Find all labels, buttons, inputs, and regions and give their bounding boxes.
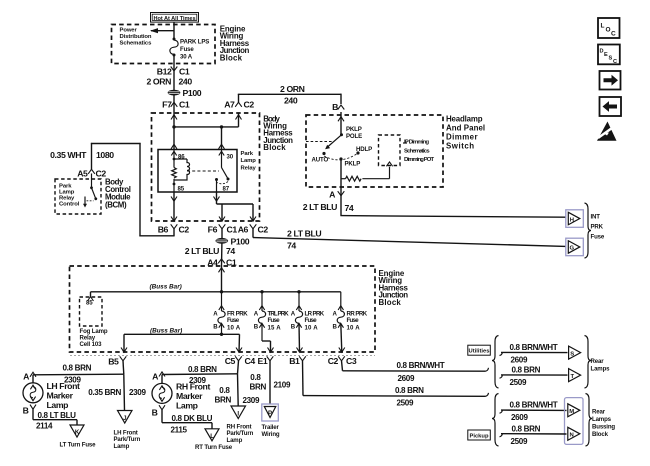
svg-text:B6: B6 bbox=[158, 224, 169, 234]
svg-text:2609: 2609 bbox=[511, 355, 528, 364]
connector E1 (fork up) bbox=[258, 356, 274, 366]
faint scan dotted line under block bbox=[70, 355, 375, 357]
svg-text:10 A: 10 A bbox=[227, 325, 241, 332]
fuse FR PRK 10A bbox=[213, 292, 248, 335]
svg-text:2609: 2609 bbox=[511, 413, 528, 422]
label: Rear Lamps Bussing Block bbox=[592, 409, 615, 439]
svg-text:240: 240 bbox=[284, 96, 298, 106]
fuse symbol L: RT Turn Fuse bbox=[195, 429, 233, 451]
svg-text:Schematics: Schematics bbox=[404, 148, 430, 154]
svg-text:K: K bbox=[75, 429, 80, 436]
svg-text:Dimming POT: Dimming POT bbox=[404, 157, 435, 163]
svg-text:Fuse: Fuse bbox=[305, 317, 318, 324]
headlamp and panel dimmer switch dashed box bbox=[306, 115, 443, 187]
BCM name bbox=[105, 178, 131, 210]
buss bar (upper) bbox=[91, 291, 341, 293]
svg-text:0.8 BRN/WHT: 0.8 BRN/WHT bbox=[397, 361, 445, 370]
relay switch 30-87 bbox=[215, 168, 230, 193]
svg-text:HDLP: HDLP bbox=[356, 146, 372, 153]
wire: F6 down to A4 bbox=[221, 238, 224, 266]
svg-text:B5: B5 bbox=[108, 356, 119, 366]
svg-text:Fuse: Fuse bbox=[591, 234, 605, 241]
svg-text:C2: C2 bbox=[179, 224, 190, 234]
svg-text:Power: Power bbox=[120, 27, 138, 33]
svg-text:Bussing: Bussing bbox=[592, 424, 615, 431]
toolbar icon LOC bbox=[598, 18, 620, 38]
svg-text:87: 87 bbox=[223, 186, 230, 193]
svg-text:POLE: POLE bbox=[346, 133, 362, 140]
connector A7 C2 (fork down) bbox=[224, 99, 254, 109]
svg-text:C: C bbox=[611, 31, 616, 38]
fuse LR PRK 10A bbox=[291, 292, 325, 352]
connector C2 C3 (fork up) bbox=[328, 356, 357, 366]
svg-text:10 A: 10 A bbox=[305, 325, 319, 332]
fuse PARK LPS 30A bbox=[170, 38, 209, 61]
svg-text:2509: 2509 bbox=[511, 437, 528, 446]
wire: internal link F7 to A7 bbox=[174, 126, 239, 128]
contact HDLP bbox=[356, 146, 372, 155]
svg-text:PKLP: PKLP bbox=[346, 126, 362, 133]
contact PKLP bbox=[339, 157, 360, 167]
svg-text:C: C bbox=[613, 59, 617, 65]
exit arrows at body block bottom bbox=[171, 217, 177, 222]
svg-text:F7: F7 bbox=[162, 99, 172, 109]
connector B (LH marker, fork down) bbox=[23, 405, 36, 416]
exit arrows at engine block bottom bbox=[121, 348, 127, 353]
svg-text:2 LT BLU: 2 LT BLU bbox=[303, 202, 337, 212]
wire: arrow to power distribution schematics bbox=[150, 28, 174, 33]
wire label: 0.35 WHT 1080 bbox=[50, 150, 114, 160]
power label: Hot At All Times bbox=[151, 13, 199, 23]
svg-text:85: 85 bbox=[178, 186, 185, 193]
svg-text:C1: C1 bbox=[179, 99, 190, 109]
BCM label: park lamp relay control bbox=[59, 183, 80, 207]
fuse symbol K: LT Turn Fuse bbox=[60, 425, 97, 449]
fork into relay (pin30 wire) bbox=[219, 144, 225, 149]
svg-text:A6: A6 bbox=[238, 224, 249, 234]
connector B (RH marker, fork down) bbox=[152, 405, 165, 417]
engine block (top) name bbox=[220, 25, 250, 63]
contact AUTO bbox=[312, 152, 329, 164]
engine wiring harness junction block (lower) dashed box bbox=[70, 266, 376, 352]
svg-text:A: A bbox=[291, 311, 296, 318]
wire S: 0.8 BRN/WHT 2609 bbox=[500, 343, 568, 364]
svg-text:LH Front: LH Front bbox=[47, 381, 80, 391]
toolbar icon arrow right bbox=[600, 71, 621, 90]
dashed line to box edge bbox=[306, 141, 332, 143]
relay name bbox=[241, 151, 257, 171]
svg-text:A: A bbox=[254, 311, 259, 318]
wire: A4 into block to buss bar bbox=[221, 266, 223, 292]
buss bar (lower) bbox=[124, 328, 240, 352]
wire: B6 to BCM A5 bbox=[91, 143, 175, 237]
svg-text:H: H bbox=[570, 217, 574, 223]
svg-text:C2: C2 bbox=[244, 99, 255, 109]
label PKLP POLE bbox=[346, 126, 362, 140]
svg-text:Block: Block bbox=[592, 431, 609, 438]
wire label: 2 LT BLU 74 (lower) bbox=[185, 246, 236, 256]
node: A4 on buss bar bbox=[220, 290, 223, 293]
toolbar icon DESC bbox=[598, 45, 620, 66]
svg-text:G: G bbox=[570, 246, 575, 252]
inline connector P100 (lower) bbox=[216, 236, 250, 246]
wire: A6 to fuse G (2 LT BLU 74) bbox=[253, 228, 566, 250]
svg-text:Fuse: Fuse bbox=[347, 317, 360, 324]
label: Power Distribution Schematics bbox=[120, 27, 153, 46]
left brace pickup group bbox=[492, 394, 499, 447]
BCM driver switch bbox=[83, 174, 97, 208]
svg-text:Marker: Marker bbox=[176, 391, 203, 401]
label: Fog Lamp Relay Cell 103 bbox=[80, 328, 108, 348]
svg-text:L: L bbox=[601, 23, 605, 30]
svg-text:C3: C3 bbox=[346, 356, 357, 366]
svg-text:B: B bbox=[254, 324, 259, 331]
inline connector P100 bbox=[168, 88, 202, 98]
svg-text:30: 30 bbox=[227, 154, 234, 161]
wire T: 0.8 BRN 2509 bbox=[500, 366, 568, 388]
wire: PKLP leg down out of switch bbox=[340, 183, 342, 196]
svg-text:Block: Block bbox=[220, 53, 243, 62]
svg-text:Lamp: Lamp bbox=[114, 443, 130, 450]
wire label: 0.8 BRN 2309 (RH) bbox=[188, 365, 217, 385]
svg-text:0.8: 0.8 bbox=[250, 373, 261, 382]
svg-text:Pickup: Pickup bbox=[469, 434, 488, 440]
svg-text:PKLP: PKLP bbox=[345, 160, 361, 167]
svg-text:Fuse: Fuse bbox=[180, 46, 194, 53]
svg-text:10 A: 10 A bbox=[347, 325, 361, 332]
svg-text:B12: B12 bbox=[157, 67, 172, 77]
svg-text:RH Front: RH Front bbox=[176, 382, 210, 392]
toolbar icon ESD triangle bbox=[597, 122, 617, 141]
connector C5 C4 (fork up) bbox=[225, 356, 256, 366]
svg-text:(Buss Bar): (Buss Bar) bbox=[150, 283, 182, 290]
svg-text:0.8 BRN: 0.8 BRN bbox=[512, 424, 541, 433]
wire: C5 down 0.8 BRN 2309 to I bbox=[215, 374, 260, 406]
svg-text:L: L bbox=[210, 433, 214, 440]
svg-text:0.8 BRN/WHT: 0.8 BRN/WHT bbox=[510, 401, 558, 410]
wire label: 2 ORN 240 bbox=[146, 76, 192, 86]
node: junction to relay pin 30 bbox=[220, 125, 223, 128]
fuse symbol H (boxed, INT PRK) bbox=[566, 210, 584, 228]
svg-text:Lamps: Lamps bbox=[592, 416, 612, 423]
resistor to dimming pot bbox=[341, 162, 393, 181]
svg-text:A: A bbox=[213, 311, 218, 318]
svg-text:B: B bbox=[23, 406, 29, 416]
wire: A7 drop into body block bbox=[238, 113, 240, 127]
svg-text:B1: B1 bbox=[289, 356, 300, 366]
svg-text:0.8 BRN: 0.8 BRN bbox=[188, 365, 217, 374]
svg-text:Lamp: Lamp bbox=[176, 401, 198, 411]
svg-text:M: M bbox=[569, 409, 574, 415]
svg-text:Block: Block bbox=[379, 298, 402, 307]
connector A (LH marker) bbox=[23, 372, 36, 382]
svg-text:F6: F6 bbox=[208, 224, 218, 234]
svg-text:O: O bbox=[606, 27, 611, 34]
svg-text:T: T bbox=[570, 374, 574, 380]
svg-text:0.35 BRN: 0.35 BRN bbox=[88, 388, 121, 397]
wire: pin 85 to B6 exit bbox=[173, 192, 175, 221]
wire label: 2 ORN 240 (branch) bbox=[280, 84, 305, 106]
engine wiring harness junction block (top) dashed box bbox=[112, 25, 216, 64]
body block name bbox=[263, 114, 293, 152]
wire: C3 down and right 0.8 BRN/WHT 2609 bbox=[342, 361, 489, 383]
label: Rear Lamps bbox=[591, 358, 611, 373]
svg-text:C2: C2 bbox=[328, 356, 339, 366]
entry arrow A4 bbox=[219, 268, 225, 273]
svg-text:30 A: 30 A bbox=[180, 54, 193, 61]
wire: E1 down 0.8 BRN 2109 to P bbox=[250, 361, 291, 404]
svg-text:Headlamp: Headlamp bbox=[446, 115, 483, 124]
svg-text:Rear: Rear bbox=[592, 409, 606, 416]
wire: branch 2 ORN to headlamp switch bbox=[238, 94, 341, 104]
svg-text:A: A bbox=[333, 311, 338, 318]
svg-text:AUTO: AUTO bbox=[312, 157, 329, 164]
connector F6 C1 (fork up) bbox=[208, 224, 238, 238]
svg-text:1080: 1080 bbox=[96, 150, 114, 160]
svg-text:IP Dimming: IP Dimming bbox=[404, 140, 430, 146]
lamp symbol I: RH Front Park/Turn Lamp bbox=[227, 406, 254, 444]
svg-text:(BCM): (BCM) bbox=[105, 200, 127, 209]
svg-text:E1: E1 bbox=[258, 356, 268, 366]
connector B (fork down) at headlamp switch bbox=[332, 102, 344, 112]
svg-text:And Panel: And Panel bbox=[446, 124, 485, 133]
wire: junction down to relay pin 30 bbox=[221, 127, 223, 150]
wire: B5 down 0.35 BRN 2309 to J bbox=[88, 374, 146, 410]
svg-text:BRN: BRN bbox=[250, 383, 267, 392]
park lamp relay box bbox=[158, 150, 237, 193]
svg-text:B: B bbox=[152, 408, 158, 418]
svg-text:Switch: Switch bbox=[446, 142, 474, 151]
connector F7 C1 (fork down) bbox=[162, 99, 190, 109]
svg-text:LT Turn Fuse: LT Turn Fuse bbox=[60, 442, 97, 449]
svg-text:Lamp: Lamp bbox=[227, 437, 243, 444]
body control module dashed box bbox=[55, 179, 101, 214]
wire: F7 drop into body block bbox=[173, 113, 175, 150]
svg-text:Rear: Rear bbox=[591, 358, 605, 365]
svg-text:A5: A5 bbox=[77, 169, 88, 179]
svg-text:85: 85 bbox=[86, 300, 93, 307]
svg-text:240: 240 bbox=[179, 76, 193, 86]
svg-text:S: S bbox=[570, 351, 574, 357]
RH front marker lamp bbox=[152, 375, 210, 411]
svg-text:2 LT BLU: 2 LT BLU bbox=[287, 228, 321, 238]
fork into relay (pin86 wire) bbox=[171, 144, 177, 149]
svg-text:74: 74 bbox=[287, 241, 296, 251]
relay pin 30 bbox=[219, 150, 234, 168]
relay pin 86 bbox=[171, 150, 185, 161]
svg-text:PRK: PRK bbox=[591, 224, 604, 231]
connector B5 (fork up) bbox=[108, 356, 126, 366]
svg-text:0.35 WHT: 0.35 WHT bbox=[50, 150, 87, 160]
svg-text:S: S bbox=[609, 56, 613, 62]
body wiring harness junction block dashed box bbox=[152, 113, 260, 221]
svg-text:0.8: 0.8 bbox=[219, 386, 230, 395]
connector A5 C2 (fork down) bbox=[77, 169, 106, 179]
svg-text:P: P bbox=[268, 410, 272, 417]
connector A4 C1 (fork down) bbox=[207, 257, 237, 267]
svg-text:BRN: BRN bbox=[215, 396, 232, 405]
wire: main feed vertical from Hot At All Times bbox=[173, 22, 175, 38]
fuse symbol N bbox=[568, 427, 580, 440]
svg-text:Lamp: Lamp bbox=[241, 158, 257, 164]
svg-text:Lamps: Lamps bbox=[591, 366, 611, 373]
svg-text:P100: P100 bbox=[183, 88, 202, 98]
svg-text:C2: C2 bbox=[258, 224, 269, 234]
svg-text:2 ORN: 2 ORN bbox=[146, 76, 171, 86]
svg-text:Distribution: Distribution bbox=[120, 34, 152, 40]
svg-text:2309: 2309 bbox=[243, 396, 260, 405]
svg-text:Utilities: Utilities bbox=[469, 349, 490, 355]
svg-text:E: E bbox=[604, 52, 608, 58]
svg-text:C1: C1 bbox=[227, 224, 238, 234]
IP dimming pot dashed box bbox=[379, 135, 401, 166]
LH front marker lamp bbox=[23, 375, 80, 410]
brace and label INT PRK Fuse bbox=[585, 203, 605, 258]
svg-text:15 A: 15 A bbox=[268, 325, 282, 332]
svg-text:0.8 BRN: 0.8 BRN bbox=[512, 366, 541, 375]
wire M: 0.8 BRN/WHT 2609 bbox=[500, 401, 567, 423]
connector B1 (fork up) bbox=[289, 356, 306, 366]
wire: P100 to F7 bbox=[173, 95, 175, 113]
svg-text:C4: C4 bbox=[245, 356, 256, 366]
svg-text:Marker: Marker bbox=[47, 391, 74, 401]
svg-text:A7: A7 bbox=[224, 99, 235, 109]
svg-text:2114: 2114 bbox=[36, 422, 53, 431]
wire: LH B to LT turn fuse, 0.8 LT BLU 2114 bbox=[33, 409, 77, 430]
svg-text:B: B bbox=[333, 324, 338, 331]
svg-text:Fuse: Fuse bbox=[227, 317, 240, 324]
wire: C5 branch left to RH marker lamp A bbox=[162, 373, 238, 376]
wire label: 0.8 BRN 2309 (LH) bbox=[63, 364, 92, 385]
svg-text:(Buss Bar): (Buss Bar) bbox=[150, 328, 182, 335]
svg-text:Park: Park bbox=[241, 151, 254, 157]
relay coil bbox=[172, 158, 190, 193]
wire: B1 down and right 0.8 BRN 2509 bbox=[303, 361, 489, 408]
engine block (lower) name bbox=[379, 269, 409, 307]
fuse RR PRK 10A bbox=[333, 292, 368, 352]
svg-text:B: B bbox=[291, 324, 296, 331]
svg-text:J: J bbox=[123, 415, 126, 422]
connector B6 C2 (fork up) bbox=[158, 224, 190, 236]
svg-text:Fuse: Fuse bbox=[268, 317, 281, 324]
svg-text:Block: Block bbox=[263, 143, 286, 152]
svg-text:C5: C5 bbox=[225, 356, 236, 366]
svg-text:0.8 BRN/WHT: 0.8 BRN/WHT bbox=[510, 343, 558, 352]
svg-text:74: 74 bbox=[345, 203, 354, 213]
fog lamp relay 85 dashed box bbox=[80, 297, 103, 326]
fork down to fog lamp relay 85 bbox=[88, 292, 94, 301]
wire: A down, 2 LT BLU 74 to fuse H bbox=[303, 196, 566, 218]
right brace utilities group bbox=[585, 336, 592, 389]
svg-text:0.8 LT BLU: 0.8 LT BLU bbox=[38, 411, 77, 420]
switch name bbox=[446, 115, 485, 151]
label box: Pickup bbox=[468, 430, 491, 440]
svg-text:B: B bbox=[213, 324, 218, 331]
svg-text:2309: 2309 bbox=[129, 388, 146, 397]
fuse symbol M bbox=[568, 404, 580, 417]
node: buss bar junctions bbox=[260, 290, 263, 293]
wire: B5 down to junction bbox=[122, 361, 125, 374]
right brace pickup group bbox=[586, 394, 593, 447]
wire: PKLP down to resistor bbox=[340, 159, 342, 183]
svg-text:2115: 2115 bbox=[171, 425, 188, 434]
shared box for M and N bbox=[565, 398, 584, 445]
dashed detent arc bbox=[324, 153, 358, 160]
svg-text:Schematics: Schematics bbox=[120, 41, 153, 47]
svg-text:Cell 103: Cell 103 bbox=[80, 341, 103, 348]
svg-text:2509: 2509 bbox=[510, 378, 527, 387]
connector A (fork up) below switch bbox=[329, 190, 344, 200]
svg-text:2609: 2609 bbox=[398, 374, 415, 383]
trailer wiring symbol P (boxed triangle) bbox=[262, 404, 280, 438]
switch pole and wiper arm bbox=[325, 133, 343, 149]
entry arrow A7 bbox=[236, 115, 242, 120]
label box: Utilities bbox=[468, 345, 491, 355]
entry arrow B bbox=[338, 117, 344, 122]
svg-text:D: D bbox=[600, 49, 604, 55]
relay coil-switch dashed link bbox=[187, 170, 219, 172]
svg-text:2509: 2509 bbox=[397, 399, 414, 408]
svg-text:C1: C1 bbox=[179, 67, 190, 77]
wire N: 0.8 BRN 2509 bbox=[500, 424, 567, 446]
fuse symbol S bbox=[569, 346, 581, 359]
svg-text:0.8 BRN: 0.8 BRN bbox=[395, 386, 424, 395]
fork below relay pin85 bbox=[171, 197, 177, 202]
svg-text:Relay: Relay bbox=[241, 165, 257, 171]
svg-text:N: N bbox=[570, 433, 574, 439]
svg-text:Wiring: Wiring bbox=[262, 431, 280, 438]
wire: B into switch bbox=[340, 112, 342, 135]
connector A6 C2 (fork up) bbox=[238, 224, 269, 237]
wire: RH B to RT turn fuse, 0.8 DK BLU 2115 bbox=[162, 410, 213, 435]
svg-text:2109: 2109 bbox=[274, 381, 291, 390]
wire: C5 down to junction bbox=[238, 361, 239, 374]
svg-text:Dimmer: Dimmer bbox=[446, 133, 478, 142]
svg-text:2 ORN: 2 ORN bbox=[280, 84, 305, 94]
svg-text:0.8 BRN: 0.8 BRN bbox=[63, 364, 92, 373]
connector B12 C1 (fork up) bbox=[157, 67, 190, 77]
fuse symbol G (boxed, INT PRK) bbox=[566, 238, 584, 256]
fuse TRL PRK 15A bbox=[254, 292, 290, 352]
svg-text:2 LT BLU: 2 LT BLU bbox=[185, 246, 219, 256]
fuse symbol T bbox=[569, 369, 581, 382]
svg-text:B: B bbox=[332, 102, 338, 112]
lamp symbol J: LH Front Park/Turn Lamp bbox=[114, 411, 141, 451]
svg-text:INT: INT bbox=[591, 214, 601, 221]
svg-text:0.8 DK BLU: 0.8 DK BLU bbox=[172, 414, 213, 423]
svg-text:74: 74 bbox=[226, 246, 235, 256]
wire: fuse to B12 bbox=[173, 55, 175, 92]
entry arrow F7 bbox=[171, 115, 177, 120]
svg-text:Control: Control bbox=[59, 201, 80, 207]
connector A (RH marker) bbox=[152, 372, 165, 382]
left brace utilities group bbox=[492, 336, 499, 389]
wire: B5 branch left to LH marker lamp A bbox=[33, 373, 124, 376]
wire: pin 87 down and split to F6 / A6 bbox=[214, 192, 254, 221]
svg-text:RT Turn Fuse: RT Turn Fuse bbox=[195, 444, 233, 451]
toolbar icon arrow left bbox=[600, 97, 622, 116]
label IP Dimming Schematics Dimming POT bbox=[403, 140, 435, 163]
svg-text:Hot At All Times: Hot At All Times bbox=[154, 16, 196, 22]
svg-text:PARK LPS: PARK LPS bbox=[180, 39, 209, 46]
svg-text:Lamp: Lamp bbox=[47, 400, 69, 410]
